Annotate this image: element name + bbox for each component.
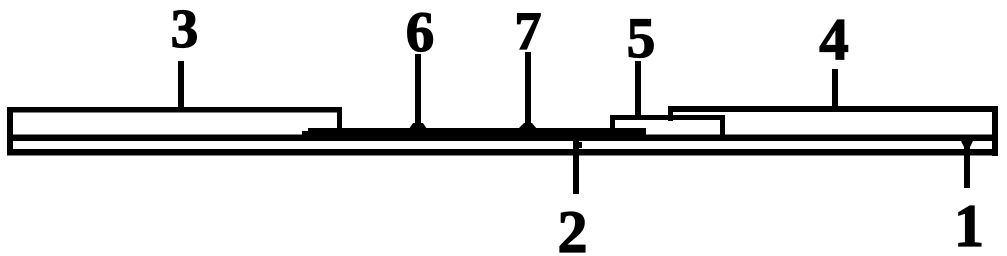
svg-text:3: 3	[171, 0, 199, 59]
conjugate pad 5	[610, 115, 725, 141]
svg-text:2: 2	[558, 199, 588, 256]
svg-text:7: 7	[515, 1, 542, 61]
absorbent pad 4	[668, 106, 998, 121]
svg-text:1: 1	[954, 193, 984, 256]
leader line 3	[178, 61, 184, 112]
leader line 4	[832, 69, 838, 112]
leader line 1	[961, 141, 973, 188]
leader line 2	[573, 140, 582, 194]
backing plate 1 / base strip 2 outline	[7, 107, 998, 156]
sample pad 3	[7, 107, 342, 133]
svg-text:6: 6	[406, 1, 435, 64]
leader line 6	[409, 54, 427, 129]
svg-text:5: 5	[627, 7, 656, 70]
leader line 5	[635, 61, 641, 120]
nitrocellulose membrane with test/control lines 6,7	[302, 128, 646, 140]
leader line 7	[518, 52, 537, 129]
svg-text:4: 4	[819, 6, 849, 72]
